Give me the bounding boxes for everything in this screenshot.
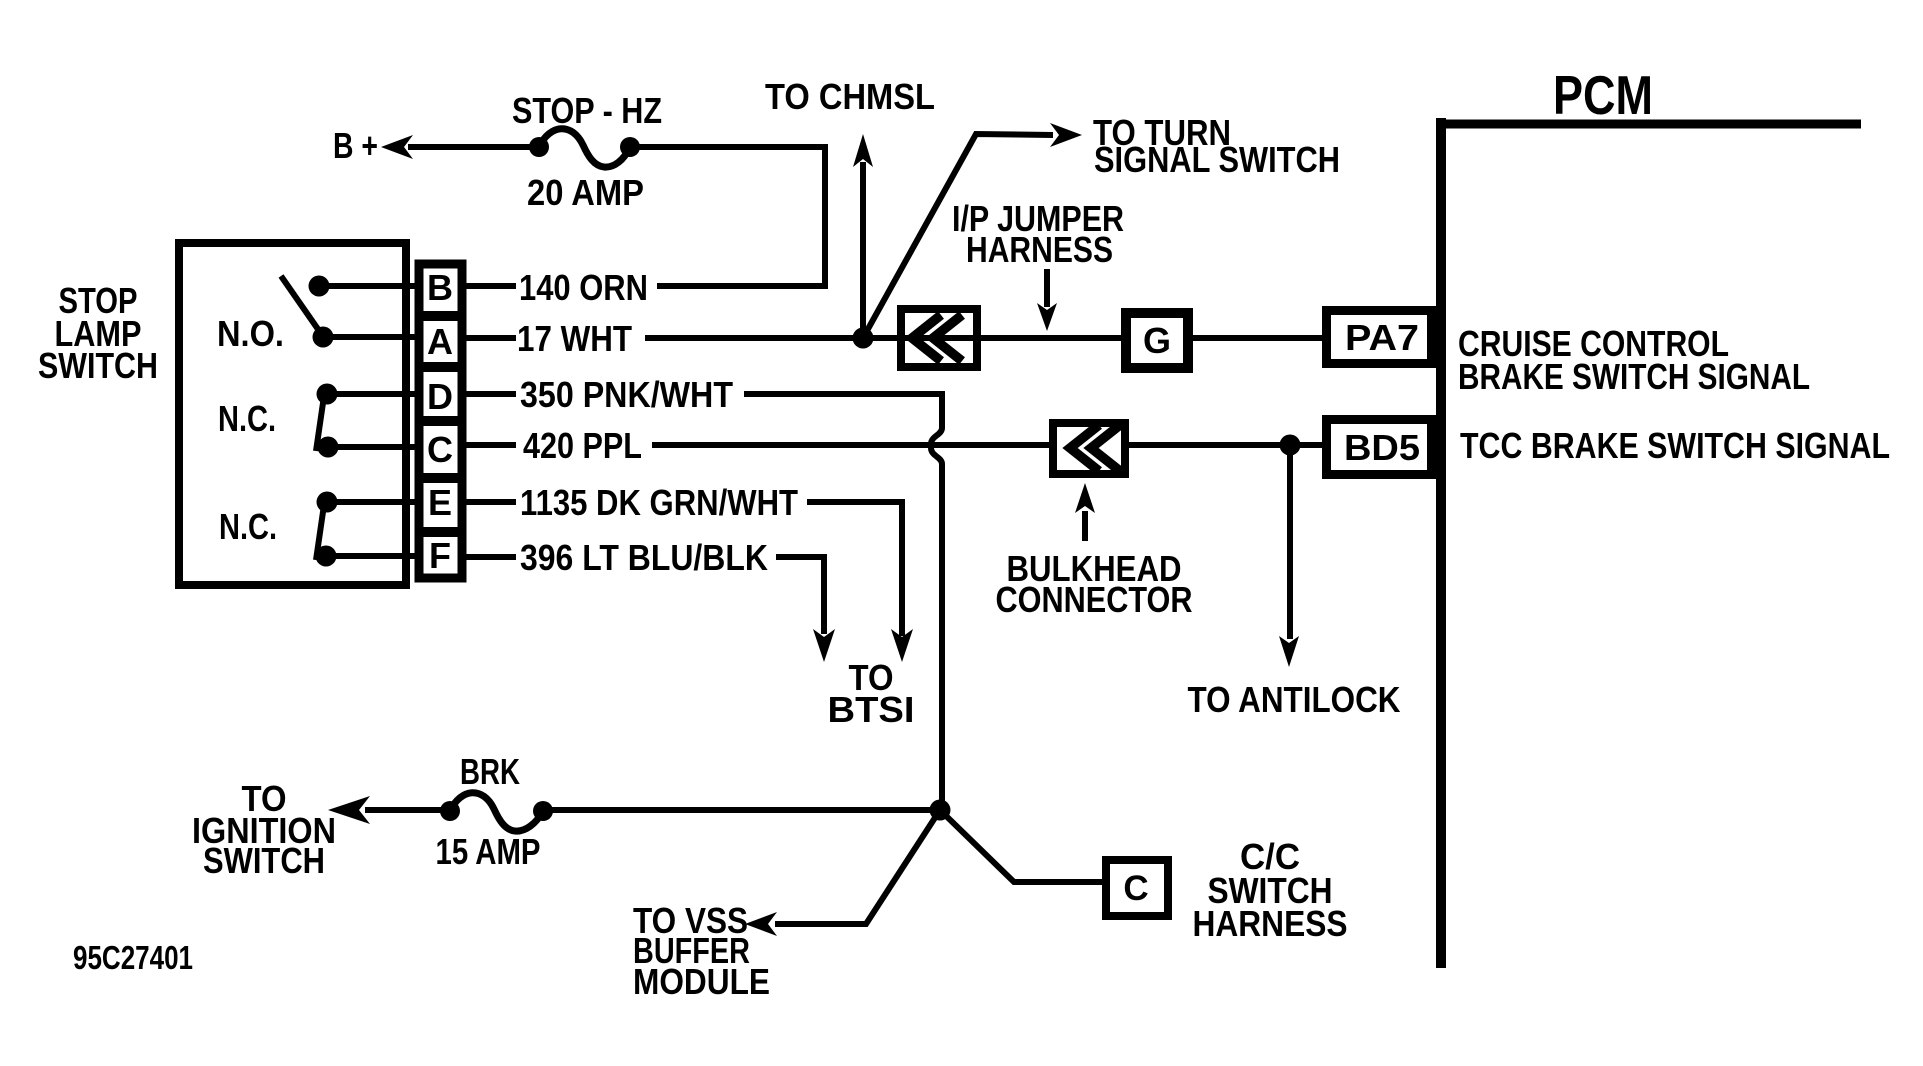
svg-text:PCM: PCM: [1553, 64, 1653, 126]
label TO TURN SIGNAL SWITCH: [1093, 112, 1340, 180]
label TO BTSI: [828, 657, 915, 730]
svg-text:17 WHT: 17 WHT: [517, 318, 632, 359]
svg-text:G: G: [1143, 320, 1171, 361]
junction node brake feed: [930, 800, 951, 821]
pin B: [427, 267, 516, 308]
arrow I/P jumper harness: [1037, 269, 1057, 331]
contact C: [318, 437, 420, 458]
svg-text:BD5: BD5: [1344, 427, 1420, 468]
wire 396 LT BLU/BLK to BTSI: [776, 557, 835, 662]
bulkhead connector 2: [1053, 423, 1125, 474]
svg-text:TO ANTILOCK: TO ANTILOCK: [1188, 679, 1401, 720]
switch lever N.C. second: [316, 505, 324, 560]
connector G: [1126, 313, 1188, 368]
pin F: [429, 535, 516, 576]
label STOP LAMP SWITCH: [38, 280, 158, 386]
switch lever N.C. first: [316, 396, 324, 451]
wire 1135 DK GRN/WHT to BTSI: [807, 502, 913, 662]
switch lever N.O.: [281, 276, 322, 335]
svg-text:SWITCH: SWITCH: [38, 345, 158, 386]
arrow to B+: [381, 135, 413, 159]
wire to turn signal switch: [863, 123, 1082, 338]
svg-text:B: B: [427, 267, 453, 308]
svg-text:N.C.: N.C.: [219, 506, 277, 547]
svg-text:C: C: [427, 429, 453, 470]
wire to VSS buffer module: [745, 810, 940, 936]
svg-text:140 ORN: 140 ORN: [519, 267, 648, 308]
connector BD5: [1327, 420, 1432, 475]
svg-text:A: A: [427, 321, 453, 362]
label TO IGNITION SWITCH: [192, 778, 336, 881]
PCM outline: [1436, 118, 1861, 968]
svg-text:15 AMP: 15 AMP: [436, 831, 541, 872]
label I/P JUMPER HARNESS: [952, 198, 1124, 270]
svg-text:SWITCH: SWITCH: [203, 840, 325, 881]
wire B+ to fuse: [408, 144, 541, 150]
connector PA7: [1327, 311, 1432, 364]
pin A: [427, 321, 516, 362]
svg-text:HARNESS: HARNESS: [1193, 903, 1348, 944]
wire fuse to junction: [543, 807, 940, 813]
wire fuse to pin B (140 ORN): [630, 147, 825, 286]
contact E: [317, 492, 420, 513]
wire ignition to fuse: [365, 807, 452, 813]
pin connector column: [415, 264, 466, 578]
svg-text:N.C.: N.C.: [218, 398, 276, 439]
pin D: [427, 376, 516, 417]
arrow to bulkhead connector: [1075, 483, 1095, 541]
svg-text:TCC BRAKE SWITCH SIGNAL: TCC BRAKE SWITCH SIGNAL: [1460, 425, 1890, 466]
svg-text:F: F: [429, 535, 451, 576]
contact F: [316, 546, 420, 567]
svg-text:MODULE: MODULE: [633, 961, 770, 1002]
connector C: [1106, 860, 1168, 916]
arrow to ignition switch: [328, 796, 370, 824]
svg-text:HARNESS: HARNESS: [966, 229, 1113, 270]
svg-text:396 LT BLU/BLK: 396 LT BLU/BLK: [520, 537, 768, 578]
svg-text:E: E: [428, 482, 452, 523]
contact D: [317, 384, 420, 405]
svg-text:B +: B +: [333, 125, 378, 166]
label C/C SWITCH HARNESS: [1193, 836, 1348, 944]
wire to C/C switch harness: [940, 810, 1102, 882]
bulkhead connector 1: [901, 309, 977, 367]
svg-text:350 PNK/WHT: 350 PNK/WHT: [520, 374, 733, 415]
svg-text:N.O.: N.O.: [217, 313, 284, 354]
svg-text:CONNECTOR: CONNECTOR: [996, 579, 1193, 620]
label TO VSS BUFFER MODULE: [633, 900, 770, 1002]
svg-text:TO CHMSL: TO CHMSL: [765, 76, 935, 117]
wire 350 PNK/WHT with hop over 420 PPL: [744, 394, 942, 810]
svg-text:C: C: [1123, 869, 1148, 908]
svg-text:SIGNAL SWITCH: SIGNAL SWITCH: [1094, 139, 1340, 180]
wire to antilock: [1279, 445, 1299, 667]
junction node 17 WHT: [853, 328, 874, 349]
svg-text:STOP - HZ: STOP - HZ: [512, 90, 662, 131]
label CRUISE CONTROL BRAKE SWITCH SIGNAL: [1458, 323, 1810, 397]
contact B: [309, 276, 420, 297]
wire 17 WHT to PCM: [645, 335, 1322, 341]
fuse BRK: [440, 793, 553, 831]
svg-text:BTSI: BTSI: [828, 689, 915, 730]
label BULKHEAD CONNECTOR: [996, 548, 1193, 620]
arrow to CHMSL: [853, 134, 873, 338]
junction node 420 PPL: [1280, 435, 1301, 456]
svg-text:BRAKE SWITCH SIGNAL: BRAKE SWITCH SIGNAL: [1458, 356, 1810, 397]
svg-text:95C27401: 95C27401: [73, 939, 193, 976]
pin E: [428, 482, 516, 523]
contact A: [313, 327, 420, 348]
stop lamp switch box: [179, 243, 406, 585]
pin C: [427, 429, 516, 470]
svg-text:PA7: PA7: [1345, 317, 1419, 358]
svg-text:1135 DK GRN/WHT: 1135 DK GRN/WHT: [520, 482, 798, 523]
fuse STOP-HZ: [529, 129, 640, 167]
svg-text:D: D: [427, 376, 453, 417]
svg-text:20 AMP: 20 AMP: [527, 172, 644, 213]
svg-text:420 PPL: 420 PPL: [523, 425, 642, 466]
wire 420 PPL row: [652, 442, 1322, 448]
svg-text:BRK: BRK: [460, 751, 520, 792]
